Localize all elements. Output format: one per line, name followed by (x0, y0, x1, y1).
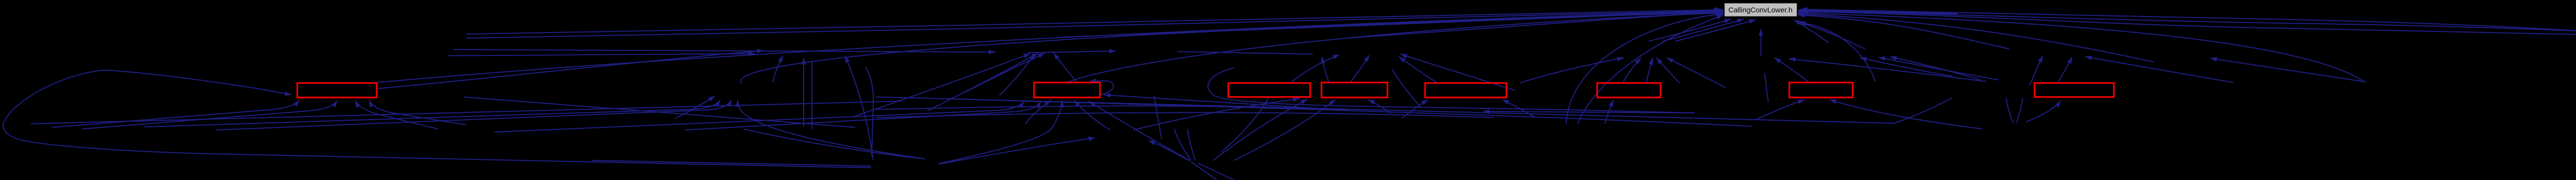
long mesh line 3 (953, 99, 1752, 126)
edge into N1b bottom 3b (999, 54, 1035, 95)
edge right 5 (from node G to CallingConvLower.h) (1798, 11, 2365, 82)
edge into N1d bottom 4 (1667, 58, 1726, 88)
edge into N1a bottom 3 (short) (773, 56, 783, 83)
companion line into D1 left (592, 160, 871, 166)
edge bundle-left U1 (from row3 node up to CallingConvLower.h) (1566, 12, 1723, 124)
edge into node H2 right (from G top) (2210, 57, 2366, 83)
edge bundle-left U2 (from row3 node up to CallingConvLower.h) (1578, 15, 1723, 124)
edge bundle-left 6 (from node A to CallingConvLower.h) (741, 10, 1723, 84)
edge into N1e bottom 2 (long shallow from right) (1789, 57, 1986, 81)
edge into B1 bottom 3 (tail to lower-right) (355, 101, 438, 129)
edge into B8 bottom 1 (from C2 top) (2026, 101, 2061, 122)
red box B4 (1321, 83, 1387, 97)
self-loop on B2 (out right edge, back into top-right) (1089, 79, 1113, 95)
edge into N1a bottom (vertical from C3) (802, 58, 806, 127)
edge into N1d bottom 2 (from B6 top) (1623, 58, 1641, 83)
thick bundle base right of title (1798, 11, 1958, 13)
edge into title bottom 1 (from N1d top) (1649, 19, 1731, 41)
edge D2->C1 right edge (arrow up-left) (1148, 140, 1190, 161)
edge from C2: V shape left branch (2006, 98, 2013, 123)
red box B5 (1425, 83, 1506, 97)
edge into B5 bottom 1 (1401, 100, 1428, 119)
edge bundle-left 4 (from N1c top to CallingConvLower.h) (1340, 10, 1723, 39)
edge into N1c right 2 (from lower right) (1400, 54, 1515, 90)
edge into N1b left (from node L1) (453, 50, 995, 54)
edge into B3 bottom-right 1 (from C1 top) (1133, 97, 1300, 130)
edge into N1b bottom 4 (from B2 top) (1054, 53, 1077, 83)
big C curve from D1 left edge around far left (3, 70, 871, 168)
edge into N1h left (up-left arrows) (1890, 56, 1981, 80)
edge into B2 bottom 1 (long shallow) (495, 101, 1024, 132)
corridor segment towards N1c (1177, 52, 1313, 54)
edge into title bottom 3 (from N1d top) (1675, 19, 1756, 41)
edge into N1d bottom 5 (1646, 58, 1653, 83)
edge D1->C1 (arrow into C1 left edge) (939, 137, 1095, 164)
arrowhead cluster into title left edge (1714, 7, 1723, 16)
mystery vertical arrow below title (1759, 29, 1764, 56)
red box B6 (1597, 83, 1660, 97)
thick bundle base left of title (1623, 11, 1723, 14)
edge into node A left (675, 96, 715, 119)
edge into node A bottom 3 (big arc from D1) (736, 100, 925, 159)
svg-text:CallingConvLower.h: CallingConvLower.h (1728, 6, 1793, 14)
edge into B2 bottom 4 (from C1) (1074, 100, 1110, 130)
edge into N1c bottom 2 (from B4 top) (1350, 55, 1369, 83)
edge from C2: V shape right branch (2016, 98, 2023, 123)
edge into N1d bottom 3 (1656, 58, 1680, 83)
edge into N1b bottom 3 (963, 53, 1045, 93)
edge into B6 bottom 1 (1605, 100, 1614, 124)
edge into B3 bottom-right 2 (from D2) (1213, 99, 1308, 160)
edge into B2 bottom 5 (diag from D2) (1089, 101, 1190, 160)
edge into N1b bottom 2 (927, 53, 1038, 111)
arrow pointing left on low shallow line (1483, 109, 1695, 114)
edge into N1f right 2 (1878, 56, 1999, 80)
mesh descender 3 (1221, 98, 1268, 152)
steep descender right of B4 (1392, 69, 1420, 106)
edge into B4 bottom-left (from D2) (1234, 100, 1335, 160)
long mesh line 1 (876, 97, 1893, 123)
edge into N1c bottom-left (from B4 top-left) (1321, 57, 1329, 83)
edge bundle-left 5 (from B1 top to CallingConvLower.h) (377, 9, 1723, 83)
red box B3 (1228, 83, 1310, 97)
edge into N1c right 1 (from B5 top-left) (1399, 57, 1437, 83)
edge into title bottom-right 1 (from N1f top) (1794, 20, 1829, 43)
edge into N1c bottom 1 (from B3 top) (1291, 55, 1340, 83)
edge into N1h from right 2 (from G1 top) (2085, 56, 2233, 83)
edge bundle-left 1 (from node L1 to CallingConvLower.h) (466, 8, 1723, 34)
edge far-right 2 (from node F2 to CallingConvLower.h) (1800, 11, 2576, 43)
edge into B5 bottom 2 (1502, 100, 1535, 118)
edge into B1 bottom 2 (82, 101, 337, 129)
edge into N1e bottom 1 (from B7 top) (1774, 58, 1810, 83)
red box B7 (1789, 83, 1853, 97)
edge into B7 bottom 1 (from C2) (1829, 100, 1982, 129)
vertical edge x=1692 from D1 top (866, 67, 873, 156)
edge into B2 bottom 2 (long shallow) (685, 102, 1041, 130)
edge right 7 (to CallingConvLower.h) (1798, 13, 2009, 49)
red box B8 (2035, 83, 2114, 97)
edge into B1 bottom 4 (tail to lower-right) (369, 100, 466, 125)
second curve down-right from node A region to D1 top (743, 129, 925, 159)
red box B2 (1034, 83, 1100, 97)
edge into B2 bottom 6 (long curve from D1 right) (939, 101, 1064, 163)
edges rising from D2 top (near-vertical curves) (1175, 129, 1195, 160)
big curve from C2 area down-left (1893, 98, 1952, 123)
edge into N1h bottom 1 (from B8 top) (2057, 57, 2072, 83)
edge into B4 bottom 2 (1368, 100, 1391, 113)
edge bundle-left 2 (from node L1 to CallingConvLower.h) (466, 9, 1723, 38)
edge into node A bottom 2 (long shallow) (216, 100, 732, 130)
edge into N1d bottom 1 (from B5 top) (1520, 57, 1624, 83)
long mesh line 2 (31, 101, 902, 124)
edge far-right 1 (from node F1 to CallingConvLower.h) (1800, 9, 2576, 43)
edge into title bottom 2 (from N1d top) (1663, 19, 1744, 41)
edge into B1 left edge (end of big C curve) (103, 70, 292, 96)
mesh shallow B (876, 112, 1494, 118)
edge bundle-left 3 (from N1b top to CallingConvLower.h) (1061, 9, 1723, 37)
descending line into C3 top (464, 97, 855, 127)
mesh descender 2 (1154, 96, 1162, 139)
edge into title bottom-right 3 (from B7 top-right) (1799, 21, 1875, 81)
edge into title bottom-right 2 (1796, 21, 1865, 49)
edge into B2 right edge (1104, 93, 1350, 110)
node CallingConvLower.h (grey title box) (1724, 3, 1797, 17)
edge right 6 (to CallingConvLower.h) (1798, 12, 2154, 62)
edge into N1b2 left (short corridor segment) (1028, 49, 1116, 54)
second vertical from C3 (811, 62, 812, 129)
edge into N1a left 2 (from B1 top-right) (377, 49, 764, 89)
stub lines below D2 (1191, 162, 1234, 180)
vertical line left of B7 (1765, 73, 1768, 102)
edge into B2 bottom 3 (vertical tail) (1025, 100, 1051, 124)
mesh shallow A (876, 106, 1350, 110)
edge into N1b bottom 1 (855, 54, 1030, 116)
edge into N1f right 1 (1860, 57, 1953, 76)
arrowhead cluster into title right edge (1798, 7, 1808, 15)
edge into N1a bottom 2 (curve from D1 top) (845, 56, 873, 160)
edge into B1 bottom 1 (52, 100, 299, 127)
red box B1 (297, 83, 377, 97)
edge into N1a left (from node L1) (448, 52, 755, 56)
wrap-around curve at B3 left (1208, 68, 1695, 113)
edge into B7 bottom 2 (1756, 100, 1805, 120)
edge far-right 3 (from node F2b to CallingConvLower.h) (1800, 12, 2576, 35)
edge into node A bottom 1 (long shallow) (144, 100, 720, 127)
edge bundle-left 7 (curved from B2 up to CallingConvLower.h) (1066, 11, 1723, 83)
edge into N1h bottom 2 (2030, 56, 2043, 85)
